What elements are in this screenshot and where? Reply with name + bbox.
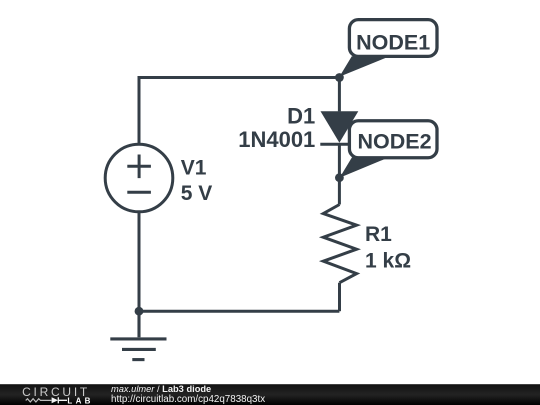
svg-text:NODE2: NODE2 xyxy=(357,130,431,154)
resistor R1 xyxy=(323,205,356,283)
svg-text:1 kΩ: 1 kΩ xyxy=(365,249,411,272)
junction: node between diode and resistor (NODE2) xyxy=(335,173,344,182)
junction: ground node xyxy=(135,307,144,316)
footer bar xyxy=(0,384,540,405)
node NODE1 callout xyxy=(339,20,437,77)
R1 value label xyxy=(365,223,411,272)
V1 value label xyxy=(181,157,213,205)
svg-text:LAB: LAB xyxy=(67,396,93,405)
svg-text:1N4001: 1N4001 xyxy=(238,127,315,152)
svg-text:V1: V1 xyxy=(181,157,207,180)
wire: cathode to resistor segment xyxy=(338,143,341,204)
svg-text:NODE1: NODE1 xyxy=(356,30,430,54)
svg-text:http://circuitlab.com/cp42q783: http://circuitlab.com/cp42q7838q3tx xyxy=(111,394,265,405)
D1 value label xyxy=(238,103,315,152)
svg-text:max.ulmer / Lab3 diode: max.ulmer / Lab3 diode xyxy=(111,384,211,394)
svg-text:D1: D1 xyxy=(287,103,315,128)
wire: left vertical lower segment xyxy=(138,212,141,311)
CircuitLab logo xyxy=(22,385,94,405)
wire: top horizontal + left vertical upper segment xyxy=(139,78,339,145)
attribution text xyxy=(111,384,265,405)
svg-text:R1: R1 xyxy=(365,223,392,246)
diode D1 xyxy=(320,111,358,144)
wire: resistor to bottom wire segment xyxy=(338,283,341,312)
wire: bottom horizontal xyxy=(139,310,339,313)
node NODE2 callout xyxy=(340,121,437,178)
ground xyxy=(110,311,166,359)
wire: right vertical, anode segment xyxy=(338,78,341,112)
junction: node at top right (NODE1) xyxy=(335,73,344,82)
voltage source V1 xyxy=(105,144,173,212)
svg-text:5 V: 5 V xyxy=(181,182,213,205)
